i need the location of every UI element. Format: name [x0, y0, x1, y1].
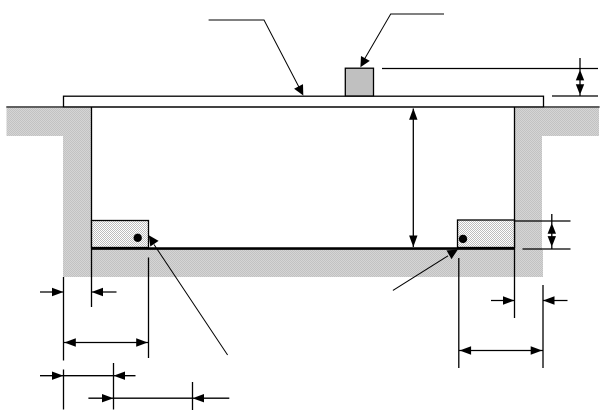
leader to component box: [363, 14, 445, 63]
dim: box height tick and arrows: [579, 58, 581, 96]
dim row C: [40, 375, 136, 377]
dim: box height lower line: [552, 95, 598, 97]
left flange (gray hatched): [7, 108, 92, 136]
ext line right wall outer: [542, 285, 544, 368]
left wall (gray hatched): [63, 108, 92, 277]
ext line left pad right edge: [148, 258, 150, 359]
component box on lid: [345, 68, 373, 96]
dim: pad height tick and arrows: [551, 214, 553, 249]
left cavity wall inner edge line: [91, 107, 93, 307]
flange top surface line: [6, 106, 599, 108]
ext line left wall outer: [63, 277, 65, 361]
dim: pad height lower line: [523, 248, 571, 250]
floor slab (gray hatched): [63, 250, 543, 277]
leader to right seam: [393, 256, 448, 291]
right flange (gray hatched): [515, 108, 600, 136]
leader to left pad dot: [154, 245, 228, 356]
ext line x192: [192, 382, 194, 410]
ext line right pad left edge: [458, 258, 460, 368]
dim row B: wall-to-pad span: [64, 342, 149, 344]
dim row A: wall thickness: [40, 291, 64, 293]
dim row E: right wall thickness: [491, 300, 515, 302]
thick seam line: [92, 247, 515, 250]
right via dot: [459, 235, 467, 243]
left substrate pad (hatched): [92, 221, 149, 248]
ext line x113: [113, 363, 115, 410]
right cavity wall inner edge line: [514, 107, 516, 318]
left via dot: [134, 234, 142, 242]
right wall (gray hatched): [515, 108, 543, 277]
leader to lid: [209, 20, 301, 91]
right substrate pad (hatched): [458, 220, 515, 248]
dim: cavity height arrow: [412, 109, 414, 248]
dim row F: pad-to-outer span: [459, 350, 543, 352]
dim: box height upper line: [382, 68, 598, 70]
dim row D: [88, 397, 229, 399]
lid plate: [64, 96, 544, 107]
dim: pad height upper line: [515, 220, 571, 222]
